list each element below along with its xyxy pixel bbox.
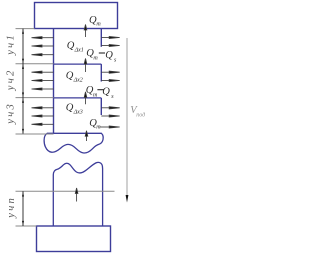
svg-text:т: т [96, 124, 101, 130]
up flow arrow at b3 [85, 131, 88, 141]
label Qt-Qs row2 [86, 85, 114, 100]
svg-text:Q: Q [105, 50, 113, 61]
up flow arrow at uch n line [75, 188, 78, 202]
lone bottom right arrow [100, 126, 120, 128]
svg-text:т: т [93, 56, 98, 62]
dim arrow up at 191.3 [22, 192, 24, 197]
left heat arrows section 2 [32, 71, 54, 90]
left heat arrows section 1 [32, 37, 54, 56]
svg-text:учn: учn [6, 198, 17, 219]
svg-text:уч1: уч1 [5, 35, 16, 56]
label Qt-Qs row1 [86, 48, 117, 63]
label Q dx2 [66, 71, 83, 84]
extension line bottom bottom [16, 225, 37, 227]
dim arrow down at b3 [22, 129, 24, 134]
right heat arrows section 3 [101, 107, 119, 117]
left heat arrows section 3 [32, 107, 54, 126]
dim arrow pair at b2 [22, 93, 24, 98]
svg-text:Δх3: Δх3 [73, 110, 83, 116]
extension line floor 2 [16, 97, 54, 99]
up flow arrow at b2 [84, 92, 87, 104]
step vertical section 2 [100, 64, 102, 81]
floor step line 2 [54, 63, 102, 65]
break 1 (cut blob) [44, 133, 103, 153]
dimension line upper chain [22, 29, 24, 134]
V pod flow line [126, 38, 128, 196]
svg-text:уч3: уч3 [5, 104, 16, 125]
dim arrow up at b0 [22, 29, 24, 34]
dim arrow pair at b1 [22, 59, 24, 64]
dim arrow down at 226 [22, 221, 24, 226]
extension line bottom top [16, 190, 115, 192]
label Q dx1 [67, 41, 84, 54]
label Qt top [89, 15, 101, 28]
svg-text:т: т [93, 93, 98, 99]
svg-text:Δх2: Δх2 [73, 78, 83, 84]
dimension line lower (uch n) [22, 191, 24, 226]
step vertical section 3 [100, 98, 102, 115]
top radiator block [35, 3, 118, 29]
svg-text:Δх1: Δх1 [74, 48, 84, 54]
riser rail [53, 29, 55, 134]
label uch2 [5, 70, 16, 91]
up flow arrow at b1 [84, 59, 87, 73]
extension line floor 3 [16, 133, 54, 135]
svg-text:Q: Q [66, 103, 74, 114]
svg-text:уч2: уч2 [5, 70, 16, 91]
up flow arrow Qt section 1 [84, 25, 87, 38]
svg-text:Q: Q [102, 87, 110, 98]
svg-text:Q: Q [67, 41, 75, 52]
svg-text:под: под [136, 112, 145, 119]
svg-text:Q: Q [66, 71, 74, 82]
V pod arrowhead [126, 195, 129, 203]
label Q dx3 [66, 103, 83, 116]
right heat arrows section 1 [101, 36, 119, 46]
extension line floor 1 [16, 63, 54, 65]
svg-text:s: s [114, 57, 117, 63]
break 2 (torn top of lower part) + right pipe [53, 162, 102, 226]
step vertical section 1 [100, 29, 102, 47]
svg-text:s: s [111, 94, 114, 100]
right heat arrows section 2 [101, 71, 119, 81]
label V pod [130, 105, 145, 119]
extension line floor 0 [16, 28, 35, 30]
svg-text:т: т [96, 22, 101, 28]
floor step line 3 [54, 97, 102, 99]
label Qt bottom [89, 118, 101, 130]
label uch n [6, 198, 17, 219]
label uch3 [5, 104, 16, 125]
label uch1 [5, 35, 16, 56]
bottom block [37, 226, 111, 252]
